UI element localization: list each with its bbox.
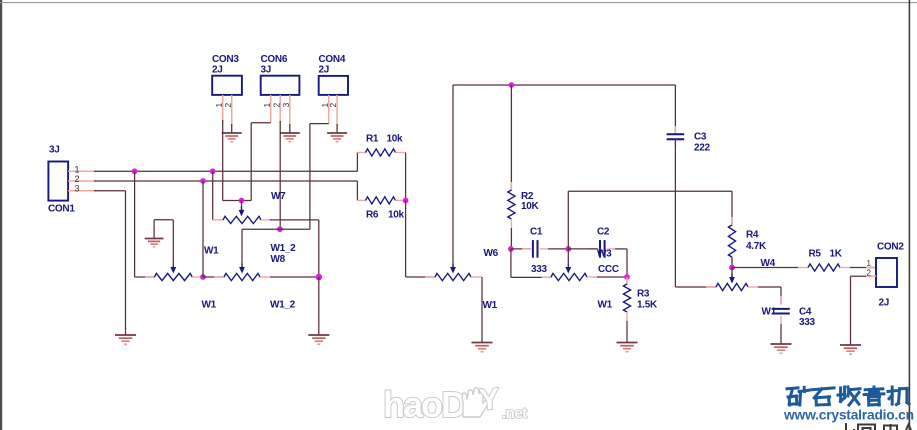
wire CON4 pin1 jog	[310, 123, 329, 125]
svg-text:3: 3	[281, 103, 291, 108]
wire C2 left lead	[589, 248, 598, 250]
wire W1 right lead	[192, 276, 203, 278]
junction dot net1 at W1 branch	[132, 168, 138, 174]
junction dot W3 right R3 top	[624, 274, 630, 280]
connector CON4	[319, 76, 348, 95]
capacitor C1	[532, 240, 534, 258]
ground under W8 right	[308, 334, 329, 336]
svg-text:1.5K: 1.5K	[637, 300, 658, 311]
svg-text:10K: 10K	[521, 201, 540, 212]
wire CON4 pin2 to ground	[336, 124, 338, 133]
pin 2 of CON1	[68, 180, 96, 182]
svg-text:CON4: CON4	[319, 54, 346, 65]
svg-text:CON6: CON6	[261, 54, 288, 65]
wire W6 right lead	[471, 276, 482, 278]
wire CON3 pin2 to ground	[231, 124, 233, 133]
svg-text:CON2: CON2	[877, 242, 904, 253]
wire W7 right to down corner	[270, 219, 319, 221]
wire C3 to W4 left	[675, 286, 716, 288]
wire R2 top	[510, 85, 512, 191]
junction dot W6 node	[508, 246, 514, 252]
svg-text:R6: R6	[366, 210, 379, 221]
wire W6 node to C1	[511, 248, 531, 250]
wire R4 bottom to junction	[731, 257, 733, 268]
ground under C4	[771, 343, 792, 345]
wire W1 left lead	[145, 276, 156, 278]
wire middle to C2	[568, 248, 597, 250]
pin 1 of CON6	[270, 95, 272, 123]
svg-text:W8: W8	[271, 254, 286, 265]
svg-text:3: 3	[75, 184, 80, 194]
wire net3 CON1 pin3 horizontal	[94, 190, 126, 192]
ground under CON4 pin2	[327, 132, 347, 134]
wire R1R6 junction down	[405, 200, 407, 277]
wire C1 left lead	[522, 248, 531, 250]
junction dot net1 at W7 branch	[210, 168, 216, 174]
wire C1 to middle junction	[548, 248, 568, 250]
pin 1 of CON2	[866, 267, 876, 269]
pin 1 of CON4	[328, 95, 330, 124]
ground under R3	[617, 342, 638, 344]
resistor R2	[508, 190, 515, 219]
wire CON3 pin1 down to W7 wiper net	[222, 120, 224, 201]
potentiometer W6	[435, 273, 471, 280]
svg-text:W1_2: W1_2	[271, 243, 297, 254]
wire W3 right to junction	[597, 276, 627, 278]
svg-text:2: 2	[271, 103, 281, 108]
wire R3 top lead	[626, 277, 628, 285]
wire R3 bottom lead	[626, 312, 628, 321]
wire middle junction down to W3 wiper	[567, 249, 569, 264]
svg-text:2: 2	[75, 174, 80, 184]
wire feedback down to R4	[731, 191, 733, 225]
wire net3 vertical to ground	[125, 191, 127, 335]
svg-text:R3: R3	[637, 289, 650, 300]
wire W7 right lead	[261, 219, 271, 221]
svg-text:W1: W1	[204, 246, 219, 257]
potentiometer W8	[224, 273, 260, 280]
svg-text:2J: 2J	[879, 298, 890, 309]
svg-text:2: 2	[223, 103, 233, 108]
wire net1 up to R1	[356, 153, 358, 172]
wire W1 wiper ground stem	[153, 220, 155, 239]
svg-text:.net: .net	[502, 405, 527, 422]
wire CON6 pin1 jog	[251, 122, 271, 124]
wire CON6 pin1 vertical	[250, 123, 252, 201]
border frame left edge	[0, 0, 2, 430]
svg-text:C3: C3	[694, 132, 707, 143]
pin 2 of CON4	[336, 95, 338, 126]
wire W8 left lead	[214, 276, 225, 278]
wire W3 left lead	[542, 276, 553, 278]
connector CON1	[48, 162, 68, 201]
wire R5 to CON2 pin1	[850, 267, 876, 269]
svg-text:C1: C1	[530, 227, 543, 238]
wire R2 top lead	[510, 182, 512, 191]
wire W8 right junction to ground	[318, 277, 320, 335]
svg-text:1: 1	[262, 103, 272, 108]
svg-text:2J: 2J	[319, 65, 330, 76]
wire middle junction up	[567, 191, 569, 249]
resistor R6	[366, 197, 396, 204]
svg-text:10k: 10k	[387, 134, 404, 145]
svg-text:R5: R5	[809, 249, 822, 260]
wire C1 right lead	[540, 248, 548, 250]
pin 2 of CON6	[279, 95, 281, 123]
wire R1 right lead	[396, 152, 406, 154]
wire net2 CON1 pin2 to R6	[94, 180, 357, 182]
junction dot net2 at W1 branch	[200, 178, 206, 184]
cut-off caption glyphs bottom right	[846, 423, 911, 430]
svg-text:C2: C2	[597, 227, 610, 238]
svg-text:www.crystalradio.cn: www.crystalradio.cn	[783, 408, 914, 423]
wire net2 branch down to W1 right	[202, 181, 204, 277]
wire W4 wiper stem	[731, 268, 733, 281]
wire W6 node down	[510, 249, 512, 278]
connector CON6	[261, 76, 300, 95]
wire R1 left lead	[357, 152, 366, 154]
wire C3 bottom lead	[674, 140, 676, 148]
wire net1 branch down to W7 left	[212, 171, 214, 220]
svg-text:3J: 3J	[261, 65, 272, 76]
wire to W6 left	[406, 276, 436, 278]
wire top rail corner down to C3	[674, 85, 676, 134]
pin 2 of CON3	[231, 95, 233, 126]
wire R4 top lead	[731, 217, 733, 226]
wire W8 top net horizontal	[242, 228, 310, 230]
wire W3 right lead	[587, 276, 597, 278]
junction dot top rail R2	[509, 82, 515, 88]
svg-text:CCC: CCC	[598, 264, 619, 275]
wire CON2 pin2 down to ground	[850, 276, 852, 345]
wire R3 bottom to ground	[626, 321, 628, 343]
svg-text:W1: W1	[598, 300, 613, 311]
svg-text:2J: 2J	[212, 65, 223, 76]
svg-text:1K: 1K	[830, 249, 843, 260]
wire C4 bottom lead	[780, 316, 782, 324]
wire R6 left lead	[357, 199, 366, 201]
svg-text:333: 333	[531, 264, 548, 275]
junction dot R1 R6 right	[403, 198, 409, 204]
wire C3 bottom down	[674, 140, 676, 287]
ground under CON1 pin3	[115, 334, 136, 336]
wire W7 right vertical down	[318, 220, 320, 277]
wire W4 corner down to C4	[780, 287, 782, 304]
pin 1 of CON1	[68, 170, 96, 172]
svg-text:333: 333	[799, 317, 816, 328]
border frame right edge	[909, 0, 911, 430]
wire CON6 pin2 down to W8 net	[279, 121, 281, 229]
potentiometer W3	[551, 273, 587, 280]
svg-text:R4: R4	[746, 230, 759, 241]
wire top rail vertical to W6 wiper	[452, 85, 454, 264]
wire W1 to W8	[203, 276, 225, 278]
ground under CON3 pin2	[222, 132, 242, 134]
junction dot R4 W4 R5	[729, 265, 735, 271]
watermark logo haoDIY.net	[383, 383, 527, 425]
wire R5 right lead	[840, 267, 850, 269]
potentiometer W7	[223, 216, 261, 223]
wire R2 bottom lead	[510, 219, 512, 228]
wire C4 bottom to ground	[780, 324, 782, 344]
connector CON2	[876, 258, 897, 287]
wire feedback top horizontal	[568, 190, 732, 192]
svg-text:W1: W1	[483, 300, 498, 311]
svg-text:W7: W7	[271, 191, 286, 202]
wire net2 down to R6	[356, 181, 358, 200]
svg-text:W3: W3	[597, 249, 612, 260]
potentiometer W1	[154, 273, 192, 280]
capacitor C4	[772, 308, 790, 310]
border frame top edge	[0, 2, 917, 3]
wire CON2 pin2 left	[851, 275, 867, 277]
wire R6 right lead	[396, 199, 406, 201]
wire W1 left horizontal	[135, 276, 155, 278]
pin 3 of CON6	[289, 95, 291, 126]
wire C2 right lead	[607, 248, 615, 250]
junction dot W1 right / W8 left	[200, 274, 206, 280]
wire R4 junction to R5	[732, 267, 798, 269]
wire C2 right to corner	[615, 248, 627, 250]
wire R5 left lead	[798, 267, 809, 269]
ground at W1 wiper	[145, 238, 164, 240]
wire CON4 pin1 vertical	[309, 124, 311, 230]
wire C3 top lead	[674, 126, 676, 134]
ground under CON2 pin2	[840, 344, 861, 346]
svg-text:W1: W1	[762, 307, 777, 318]
watermark Chinese title kuangshi shouyinji	[787, 387, 809, 405]
wire W8 right to junction	[270, 276, 319, 278]
wire C2 corner down	[626, 249, 628, 277]
capacitor C2	[599, 240, 601, 258]
connector CON3	[212, 76, 242, 95]
wire W4 right lead	[748, 286, 758, 288]
svg-text:3J: 3J	[49, 145, 60, 156]
ground under W6 right	[472, 342, 493, 344]
wire W6 left lead	[425, 276, 436, 278]
wire W7 left lead	[213, 219, 224, 221]
wire W6 wiper stem	[452, 264, 454, 270]
svg-text:R1: R1	[366, 134, 379, 145]
wire R2 bottom to W6 node	[510, 228, 512, 249]
pin 3 of CON1	[68, 190, 96, 192]
svg-text:W6: W6	[484, 248, 499, 259]
capacitor C3	[667, 133, 685, 135]
svg-text:C4: C4	[799, 307, 812, 318]
svg-text:CON3: CON3	[212, 54, 239, 65]
wire W4 right horizontal	[758, 286, 781, 288]
wire W7 wiper net horizontal	[223, 200, 252, 202]
wire W4 left lead	[706, 286, 717, 288]
svg-text:W1_2: W1_2	[270, 300, 296, 311]
resistor R4	[728, 225, 735, 257]
wire W8 right lead	[260, 276, 270, 278]
resistor R5	[808, 264, 840, 271]
svg-text:2: 2	[328, 103, 338, 108]
wire W6 node corner to W3 left	[511, 276, 552, 278]
wire W6 right down to ground	[481, 277, 483, 343]
ground under CON6 pin3	[280, 132, 300, 134]
junction dot W7 wiper net	[239, 198, 245, 204]
svg-text:CON1: CON1	[48, 204, 75, 215]
pin 2 of CON2	[866, 275, 876, 277]
wire R1 right down	[405, 153, 407, 201]
svg-text:W1: W1	[202, 300, 217, 311]
potentiometer W4	[716, 283, 748, 290]
resistor R1	[366, 149, 396, 156]
wire W8 wiper stem	[241, 229, 243, 269]
junction dot C1 C2 middle	[565, 246, 571, 252]
resistor R3	[623, 284, 630, 312]
wire W1 wiper up	[172, 220, 174, 264]
wire R4 bottom lead	[731, 257, 733, 263]
wire W1 wiper jog left	[154, 219, 173, 221]
svg-text:4.7K: 4.7K	[746, 241, 767, 252]
pin 1 of CON3	[222, 95, 224, 123]
junction dot W8 top net	[277, 226, 283, 232]
svg-text:1: 1	[75, 164, 80, 174]
junction dot W8 right	[316, 274, 323, 281]
wire CON6 pin3 to ground	[289, 124, 291, 133]
wire net1 branch down to W1 left	[134, 171, 136, 277]
wire W7 wiper stem	[241, 201, 243, 212]
svg-text:222: 222	[694, 143, 711, 154]
wire C4 top lead	[780, 296, 782, 304]
wire net1 CON1 pin1 to R1	[94, 170, 357, 172]
wire top rail horizontal	[453, 84, 675, 86]
svg-text:10k: 10k	[388, 210, 405, 221]
svg-text:haoD: haoD	[383, 384, 466, 425]
